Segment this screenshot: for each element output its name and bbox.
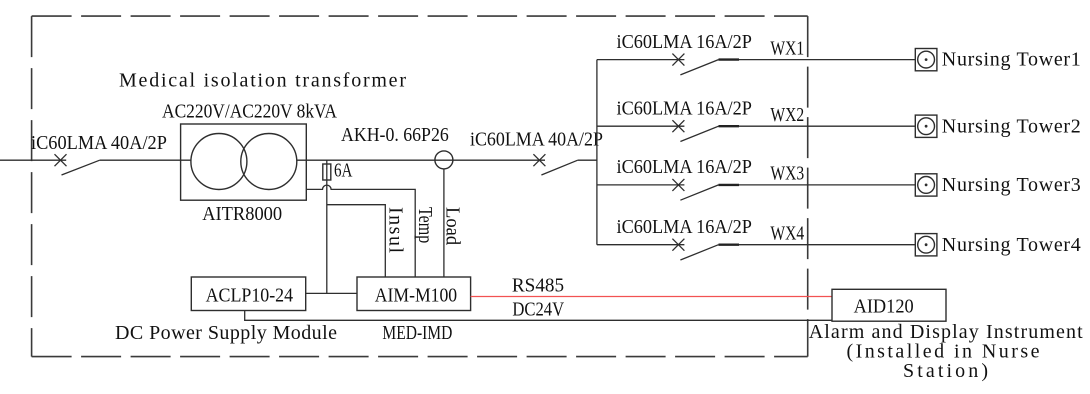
outlet symbol tower2 dot — [925, 125, 928, 128]
svg-text:iC60LMA 40A/2P: iC60LMA 40A/2P — [31, 132, 167, 154]
svg-text:WX2: WX2 — [770, 103, 804, 125]
dashed enclosure left border — [31, 16, 33, 357]
svg-text:AIM-M100: AIM-M100 — [375, 285, 457, 307]
breaker QF6 blade — [680, 245, 718, 260]
svg-text:6A: 6A — [334, 159, 353, 182]
wire incoming main line — [0, 159, 66, 161]
outlet symbol tower4 square — [915, 234, 937, 256]
transformer T1 box — [181, 124, 307, 200]
svg-text:Nursing Tower2: Nursing Tower2 — [942, 115, 1081, 137]
svg-text:WX4: WX4 — [770, 222, 804, 244]
wire breaker1 to transformer — [100, 159, 191, 161]
wire ACLP down leg to DC24V line — [245, 311, 832, 321]
svg-text:DC24V: DC24V — [512, 298, 564, 320]
outlet symbol tower3 circle — [918, 177, 935, 194]
wire ACLP to AIM link — [306, 292, 357, 294]
breaker QF1 X mark — [55, 154, 67, 166]
svg-text:AITR8000: AITR8000 — [202, 204, 282, 226]
current transformer CT1 circle — [435, 151, 453, 169]
svg-text:AKH-0. 66P26: AKH-0. 66P26 — [341, 124, 449, 146]
wire branch1 in — [597, 59, 685, 61]
svg-text:DC Power Supply Module: DC Power Supply Module — [115, 322, 337, 344]
breaker QF4 X mark — [672, 120, 684, 132]
transformer T1 secondary winding circle — [241, 134, 297, 190]
breaker QF3 X mark — [672, 54, 684, 66]
outlet symbol tower2 square — [915, 115, 937, 137]
breaker QF5 X mark — [672, 179, 684, 191]
transformer T1 primary winding circle — [191, 134, 247, 190]
svg-text:iC60LMA 16A/2P: iC60LMA 16A/2P — [617, 216, 752, 238]
svg-text:iC60LMA 40A/2P: iC60LMA 40A/2P — [470, 129, 603, 151]
svg-text:Load: Load — [441, 207, 463, 246]
outlet symbol tower1 dot — [925, 58, 928, 61]
module ACLP10-24 box — [191, 277, 305, 311]
wire branch2 out — [719, 125, 916, 127]
wire branch4 out — [719, 244, 916, 246]
wire breaker2 to bus — [578, 159, 597, 161]
breaker QF6 X mark — [672, 239, 684, 251]
svg-text:Temp: Temp — [415, 207, 437, 243]
fuse F1 body — [323, 164, 331, 180]
wire branch2 in — [597, 125, 685, 127]
svg-text:Medical isolation transformer: Medical isolation transformer — [119, 70, 406, 92]
breaker QF2 X mark — [533, 154, 545, 166]
outlet symbol tower4 dot — [925, 243, 928, 246]
outlet symbol tower1 square — [915, 49, 937, 71]
svg-text:Nursing Tower4: Nursing Tower4 — [942, 234, 1081, 256]
svg-text:iC60LMA 16A/2P: iC60LMA 16A/2P — [617, 31, 752, 53]
bus vertical — [596, 60, 598, 245]
module AID120 box — [832, 289, 946, 321]
wire thick segment after branch blade y59.6 — [719, 58, 740, 60]
dashed enclosure right border — [807, 16, 809, 357]
wire thick segment after branch blade y184.9 — [719, 184, 740, 186]
wire fuse drop vertical — [326, 160, 328, 293]
wire branch4 in — [597, 244, 685, 246]
wire branch3 in — [597, 184, 685, 186]
outlet symbol tower3 square — [915, 174, 937, 196]
svg-text:Nursing Tower3: Nursing Tower3 — [942, 174, 1081, 196]
wire insulation branch — [327, 205, 386, 277]
wire branch1 out — [719, 59, 916, 61]
svg-text:ACLP10-24: ACLP10-24 — [206, 285, 294, 307]
svg-text:AID120: AID120 — [854, 296, 914, 318]
dashed enclosure top border — [32, 15, 808, 17]
svg-text:iC60LMA 16A/2P: iC60LMA 16A/2P — [617, 156, 752, 178]
svg-text:AC220V/AC220V 8kVA: AC220V/AC220V 8kVA — [162, 100, 337, 122]
svg-text:RS485: RS485 — [512, 275, 564, 296]
breaker QF1 blade — [62, 160, 100, 175]
breaker QF4 blade — [680, 126, 718, 141]
outlet symbol tower3 dot — [925, 184, 928, 187]
dashed enclosure bottom border — [32, 356, 808, 358]
outlet symbol tower4 circle — [918, 236, 935, 253]
wire thick segment after branch blade y126.2 — [719, 125, 740, 127]
wire thick segment after branch blade y244.7 — [719, 243, 740, 245]
wire branch3 out — [719, 184, 916, 186]
outlet symbol tower1 circle — [918, 51, 935, 68]
wire transformer to breaker2 — [297, 159, 545, 161]
module AIM-M100 box — [357, 277, 471, 311]
svg-text:iC60LMA 16A/2P: iC60LMA 16A/2P — [617, 98, 752, 120]
svg-text:MED-IMD: MED-IMD — [382, 321, 452, 343]
wire CT load drop — [443, 169, 445, 277]
breaker QF2 blade — [541, 160, 577, 175]
wire RS485 red line — [471, 296, 832, 298]
breaker QF5 blade — [680, 185, 718, 200]
outlet symbol tower2 circle — [918, 118, 935, 135]
svg-text:WX3: WX3 — [770, 162, 804, 184]
svg-text:Nursing Tower1: Nursing Tower1 — [942, 49, 1081, 71]
svg-text:WX1: WX1 — [770, 36, 804, 58]
breaker QF3 blade — [680, 60, 718, 75]
wire transformer secondary tap with hop — [306, 185, 415, 277]
